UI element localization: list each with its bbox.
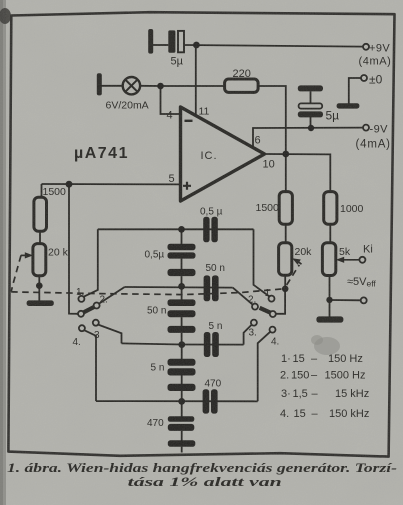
potentiometer P 20k left xyxy=(33,244,46,276)
rail 1 top of cap network xyxy=(98,228,254,230)
wire output node down to 1500 right xyxy=(285,154,287,192)
plus sign non-inverting input xyxy=(183,182,191,190)
switch S1a pole xyxy=(78,311,84,317)
wire rail2 right slant to contact 2 xyxy=(233,288,253,305)
terminal output low xyxy=(361,297,367,303)
wire node A to pin 4 xyxy=(161,86,181,114)
wire node A to R 220 xyxy=(161,85,225,87)
wire node C to output jack low xyxy=(330,299,361,301)
capacitor C 0.5u (parallel arm) xyxy=(203,217,218,242)
capacitor chain C 50n (series) xyxy=(168,288,196,343)
rail 4 (470 row) xyxy=(96,400,258,402)
wire rail2 left slant to contact 2 xyxy=(99,287,125,304)
capacitor C1 5u electrolytic xyxy=(168,30,184,52)
switch S1b contact 4 xyxy=(270,327,276,333)
chassis bar (0V terminal) xyxy=(337,103,360,108)
switch S1b contact 1 xyxy=(269,296,275,302)
op-amp U1 uA741 triangle xyxy=(181,107,265,201)
wire 20k left top lead xyxy=(39,231,41,243)
terminal +-0 xyxy=(361,75,367,81)
rail 2 (50n row) xyxy=(125,286,233,289)
wire R220 to output node xyxy=(258,86,286,154)
capacitor C 5n (parallel arm) xyxy=(204,332,219,357)
switch S1b wiper xyxy=(260,308,271,313)
resistor R 1000 xyxy=(324,192,337,225)
rail 3 (5n row) xyxy=(122,343,244,344)
wire pin5 node down to left pole xyxy=(69,184,78,314)
potentiometer P 5k output xyxy=(322,243,335,276)
corner smudge top-left xyxy=(0,8,11,24)
wire input stub to C1 xyxy=(153,44,168,46)
wire lamp to node A xyxy=(140,85,161,87)
wiper arrow 5k to Ki xyxy=(336,257,360,263)
wire 20k left bottom to ground node xyxy=(38,276,40,301)
switch S1a wiper xyxy=(84,307,94,312)
wire 1000 to 5k xyxy=(329,224,331,243)
wire C1 to +9V terminal xyxy=(184,45,363,47)
wire pin 11 supply xyxy=(195,45,197,116)
resistor R 1500 left xyxy=(34,197,47,231)
wiper arrow left pot xyxy=(21,252,33,258)
wire contact 4 left leg down to rail 4 xyxy=(84,330,96,401)
wire 20kR bottom to node B xyxy=(284,275,286,286)
wire output to right column xyxy=(265,154,331,192)
wire 5u cap lead to -9V rail xyxy=(310,117,312,128)
terminal -9V xyxy=(363,125,369,131)
ground (output divider) xyxy=(316,316,343,322)
ground (left pot) xyxy=(27,300,54,306)
wire 5k bottom to node C xyxy=(329,276,331,300)
wire central chain bottom stub xyxy=(181,447,183,453)
wiper arrow right pot xyxy=(292,258,301,264)
wire contact 3 left slant to rail 3 xyxy=(98,325,121,344)
capacitor chain C 470 (series) xyxy=(168,403,196,447)
wire contact 4 right leg down to rail 4 xyxy=(258,332,271,402)
wire contact 3 right slant to rail 3 xyxy=(244,325,252,345)
wire pin 6 to -9V rail xyxy=(253,128,363,148)
capacitor chain C 5n (series) xyxy=(168,346,196,400)
switch S1a contact 3 xyxy=(93,320,99,326)
switch S1a contact 2 xyxy=(94,303,100,309)
switch S1b pole xyxy=(270,311,276,317)
capacitor C 5u supply decoupling xyxy=(298,85,323,117)
terminal Ki output xyxy=(359,257,365,263)
wire +-0 terminal to chassis xyxy=(349,78,361,104)
node junction dots xyxy=(36,42,333,405)
page left edge shadow xyxy=(0,0,6,505)
lamp LA1 6V/20mA xyxy=(123,77,140,94)
wire rail1 left leg down to contact 1 xyxy=(84,229,98,296)
terminal bar (lamp input) xyxy=(97,73,102,95)
switch S1a contact 4 xyxy=(79,325,85,331)
capacitor chain C 0.5u (series) xyxy=(168,231,196,285)
capacitor C 50n (parallel arm) xyxy=(204,275,219,301)
potentiometer P 20k right xyxy=(279,243,292,276)
mechanical link dashed line xyxy=(11,255,299,294)
wire node B to right pole xyxy=(276,290,285,314)
resistor R 1500 right xyxy=(279,192,292,225)
resistor R 220 xyxy=(225,79,259,92)
wire node C to ground xyxy=(329,300,331,317)
capacitor C 470 (parallel arm) xyxy=(203,389,218,413)
wire lamp left xyxy=(102,85,123,87)
wire 1500R to 20kR xyxy=(285,224,287,243)
terminal bar (C1 input) xyxy=(148,29,153,54)
switch S1b contact 2 xyxy=(252,304,258,310)
switch S1b contact 3 xyxy=(251,320,257,326)
wire rail1 right leg down to contact 1 xyxy=(254,229,270,296)
ink stain near frequency list xyxy=(314,337,340,355)
terminal +9V xyxy=(363,44,369,50)
wire pin 5 input xyxy=(42,183,181,185)
minus sign inverting input xyxy=(185,120,193,122)
switch S1a contact 1 xyxy=(78,296,84,302)
wire 1500 left top lead xyxy=(41,184,43,197)
frequency range list xyxy=(280,353,369,420)
